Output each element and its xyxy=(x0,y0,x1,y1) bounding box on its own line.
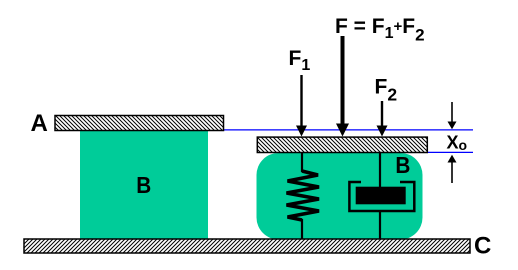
svg-text:F = F1+F2: F = F1+F2 xyxy=(335,15,425,45)
label F = F1 + F2 xyxy=(335,15,425,45)
label C xyxy=(474,233,491,260)
dimension arrow down (to upper datum) xyxy=(448,102,457,129)
label x0 xyxy=(447,132,468,153)
svg-text:F2: F2 xyxy=(375,76,398,105)
spring lower rod xyxy=(301,219,303,240)
svg-text:B: B xyxy=(395,152,410,178)
force arrow F1 xyxy=(296,75,307,137)
damper lower rod xyxy=(379,210,381,240)
ground C xyxy=(24,239,470,253)
spring upper rod xyxy=(301,152,303,172)
block B (left mass) xyxy=(80,131,208,240)
force arrow F (resultant) xyxy=(336,36,349,137)
datum line upper (blue) xyxy=(224,129,474,131)
plate A xyxy=(55,116,224,131)
svg-text:B: B xyxy=(136,172,151,198)
svg-text:C: C xyxy=(474,233,491,260)
label F2 xyxy=(375,76,398,105)
label B (isolator) xyxy=(395,152,410,178)
spring coil xyxy=(287,171,320,220)
svg-text:F1: F1 xyxy=(289,47,311,74)
damper piston xyxy=(356,187,406,205)
plate on isolator (right) xyxy=(257,137,427,152)
label B (left mass) xyxy=(136,172,151,198)
force arrow F2 xyxy=(377,101,388,137)
isolator block B (right, rounded) xyxy=(257,153,423,240)
label A xyxy=(31,110,48,137)
damper cylinder cup xyxy=(349,182,414,211)
damper upper rod xyxy=(379,152,381,189)
dimension arrow up (to lower datum) xyxy=(448,155,457,183)
svg-text:Xo: Xo xyxy=(447,132,468,153)
svg-text:A: A xyxy=(31,110,48,137)
datum line lower (blue) xyxy=(427,151,473,153)
label F1 xyxy=(289,47,311,74)
